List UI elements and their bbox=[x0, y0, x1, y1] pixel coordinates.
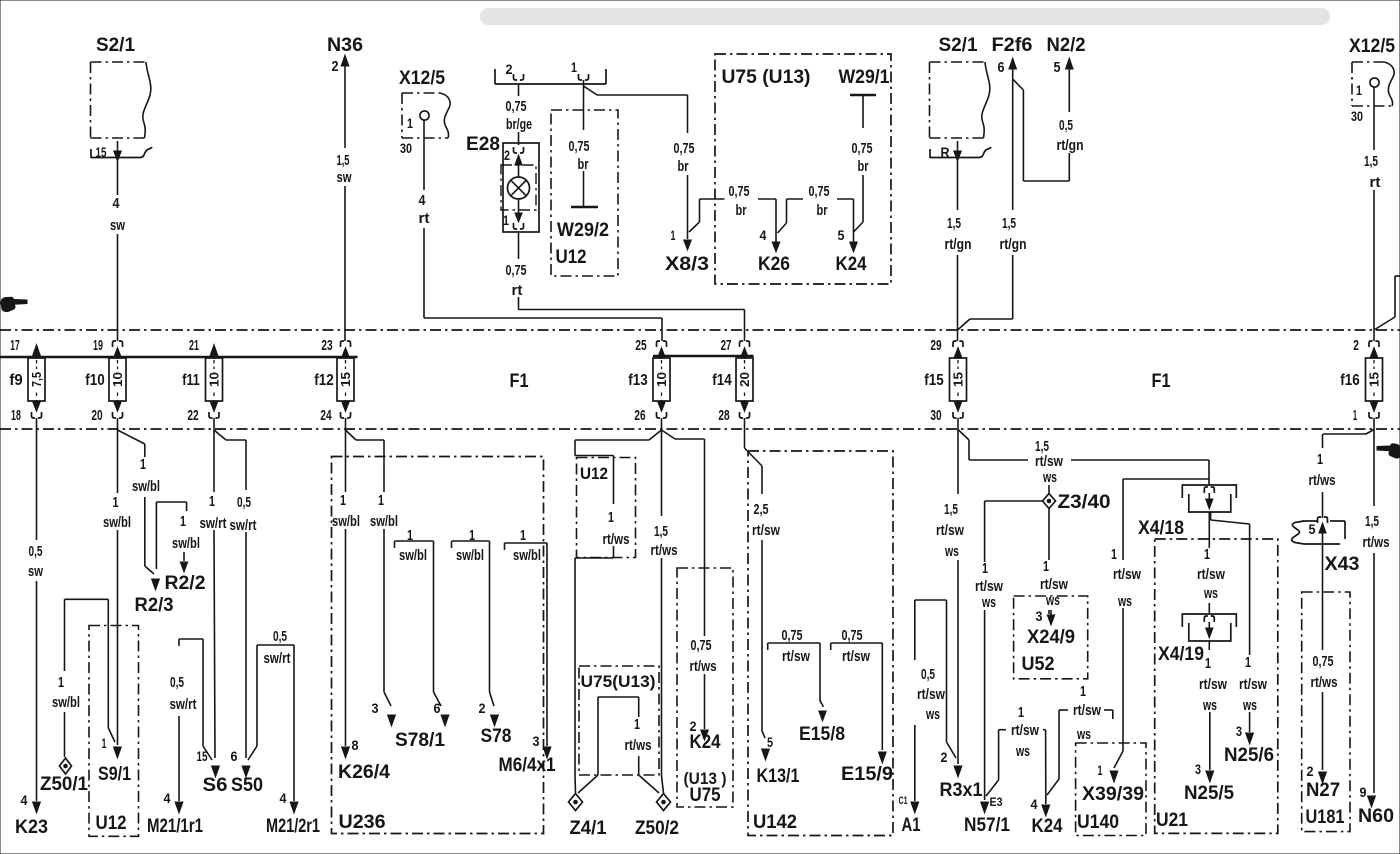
connector X11/29 bracket bbox=[495, 69, 606, 84]
svg-text:1: 1 bbox=[378, 492, 384, 509]
svg-text:rt/ws: rt/ws bbox=[651, 542, 678, 559]
svg-text:E28: E28 bbox=[466, 134, 500, 155]
heater N25/5 label bbox=[1184, 783, 1234, 804]
svg-text:K23: K23 bbox=[15, 817, 48, 838]
label F1 right bbox=[1152, 371, 1171, 392]
svg-text:Z50/1: Z50/1 bbox=[40, 774, 88, 795]
svg-text:1: 1 bbox=[140, 456, 146, 473]
wire label 1 bbox=[608, 509, 614, 526]
svg-text:f10: f10 bbox=[85, 372, 104, 389]
svg-text:30: 30 bbox=[400, 140, 412, 156]
svg-text:5: 5 bbox=[1054, 59, 1061, 76]
wire label 1 bbox=[407, 527, 413, 544]
svg-text:0,75: 0,75 bbox=[569, 138, 590, 155]
switch S9/1 label bbox=[98, 764, 131, 785]
svg-text:U75: U75 bbox=[690, 785, 721, 806]
fuse f13 (10A) bbox=[653, 358, 670, 401]
pin 4 bbox=[164, 790, 171, 806]
svg-text:X4/18: X4/18 bbox=[1138, 518, 1184, 539]
wire label rt/ws bbox=[603, 531, 630, 548]
label f16 bbox=[1340, 372, 1359, 389]
label Z4/1 bbox=[570, 818, 607, 839]
pin 29 bbox=[930, 337, 941, 354]
relay R2/3 label bbox=[135, 595, 174, 616]
E28 bottom clamp bbox=[514, 223, 524, 229]
fuse f10 (10A) bbox=[109, 358, 126, 401]
svg-text:U12: U12 bbox=[556, 247, 587, 268]
svg-text:rt/sw: rt/sw bbox=[1073, 702, 1101, 719]
svg-text:U52: U52 bbox=[1022, 654, 1055, 675]
ground symbol W29/2 bbox=[571, 206, 598, 209]
svg-text:rt/gn: rt/gn bbox=[1057, 137, 1084, 154]
svg-text:S6: S6 bbox=[203, 775, 228, 796]
svg-text:f12: f12 bbox=[314, 372, 333, 389]
A1 tap bracket bbox=[915, 600, 956, 758]
internal rail br bbox=[700, 198, 854, 200]
wire f14:28 to K13/1 bbox=[745, 430, 770, 760]
wire label 0,75 bbox=[674, 140, 695, 157]
wire f11:22 to S6 bbox=[212, 430, 220, 777]
wire f12:24 to K26/4 bbox=[342, 430, 350, 758]
wire label 0,75 bbox=[506, 98, 527, 115]
wire from right edge bbox=[1374, 276, 1400, 330]
svg-text:Z50/2: Z50/2 bbox=[635, 818, 679, 839]
wire label ws bbox=[981, 594, 996, 611]
svg-text:29: 29 bbox=[930, 337, 941, 354]
svg-text:22: 22 bbox=[187, 407, 198, 424]
wire label rt/sw bbox=[1239, 676, 1267, 693]
label W29/2 bbox=[557, 220, 609, 241]
wire label ws bbox=[1015, 743, 1030, 760]
f11 value label bbox=[0, 0, 1, 1]
wire label rt/ws bbox=[1363, 534, 1390, 551]
wire label rt/sw bbox=[782, 648, 810, 665]
f12 value label bbox=[0, 0, 1, 1]
pin 3 bbox=[372, 700, 379, 716]
pin 30 bbox=[930, 407, 941, 424]
svg-text:rt/sw: rt/sw bbox=[936, 522, 964, 539]
wire label sw/bl bbox=[513, 547, 541, 564]
plug connection X4/19 bbox=[1182, 614, 1236, 641]
wire to M21/2r1 bbox=[290, 645, 298, 813]
wire label rt/sw bbox=[1113, 566, 1141, 583]
pin 1 bbox=[1356, 82, 1362, 98]
f15 value label bbox=[0, 0, 1, 1]
pin 3 bbox=[1236, 723, 1242, 739]
svg-text:1: 1 bbox=[671, 227, 676, 243]
wire label ws bbox=[1242, 697, 1257, 714]
wire label ws bbox=[1117, 593, 1132, 610]
pin 2 bbox=[506, 61, 513, 77]
svg-text:X43: X43 bbox=[1325, 554, 1360, 575]
connector X12/5 label bbox=[399, 68, 445, 89]
svg-text:23: 23 bbox=[321, 337, 332, 354]
svg-text:1,5: 1,5 bbox=[947, 215, 961, 232]
wire label 1 bbox=[1204, 546, 1210, 563]
svg-text:F1: F1 bbox=[1152, 371, 1171, 392]
junction f10 branch bbox=[118, 430, 145, 444]
svg-text:1,5: 1,5 bbox=[337, 152, 350, 169]
label f9 bbox=[9, 372, 22, 389]
fuse box F1 upper boundary (dash-dot) bbox=[0, 329, 1400, 331]
svg-text:24: 24 bbox=[320, 407, 332, 424]
S2/1 right terminal bracket bbox=[930, 147, 991, 158]
svg-text:1,5: 1,5 bbox=[1364, 153, 1378, 170]
wire label sw/bl bbox=[399, 547, 427, 564]
M21/1r1 tap bracket bbox=[179, 639, 212, 760]
svg-text:1: 1 bbox=[1317, 451, 1323, 468]
svg-text:1: 1 bbox=[113, 494, 119, 511]
f11 top terminal 21 bbox=[210, 345, 218, 360]
wire X11/29:2 to E28 bbox=[518, 84, 520, 145]
wire X4/19 to N25/5 bbox=[1206, 641, 1214, 782]
svg-text:1: 1 bbox=[1205, 655, 1211, 672]
internal wire U75 right leg bbox=[639, 756, 659, 793]
wire label 0,5 bbox=[921, 666, 935, 683]
f16 bottom terminal 1 bbox=[1369, 400, 1379, 430]
S78/1 tap bracket bbox=[395, 541, 449, 726]
label f14 bbox=[712, 372, 731, 389]
pin 22 bbox=[187, 407, 198, 424]
svg-text:sw: sw bbox=[337, 169, 352, 186]
wire X12/5 to f13:25 bbox=[424, 120, 662, 341]
bus bar segment f13-f14 bbox=[653, 355, 754, 358]
pin 1 bbox=[1098, 762, 1103, 778]
bus bar segment f9-f12 bbox=[0, 356, 358, 359]
svg-text:U181: U181 bbox=[1306, 807, 1345, 828]
X12/5 right contact circle bbox=[1370, 78, 1379, 87]
E28 bulb bbox=[508, 177, 530, 199]
svg-text:19: 19 bbox=[93, 337, 103, 354]
pin 5 bbox=[1054, 59, 1061, 76]
svg-text:0,75: 0,75 bbox=[852, 140, 873, 157]
svg-text:1: 1 bbox=[1245, 654, 1251, 671]
wire X12/5 right to f16:2 bbox=[1373, 87, 1375, 341]
relay K24 label bbox=[836, 254, 867, 275]
svg-text:rt: rt bbox=[1370, 174, 1381, 191]
wire label 1 bbox=[1205, 655, 1211, 672]
svg-text:0,5: 0,5 bbox=[237, 494, 251, 511]
svg-text:0,75: 0,75 bbox=[1313, 653, 1334, 670]
f14 value label bbox=[0, 0, 1, 1]
module U12 boundary bbox=[577, 458, 636, 558]
svg-text:ws: ws bbox=[1045, 592, 1060, 609]
svg-text:1: 1 bbox=[209, 493, 215, 510]
label U12 bbox=[556, 247, 587, 268]
wire label rt/ws bbox=[651, 542, 678, 559]
svg-text:6: 6 bbox=[998, 59, 1005, 76]
svg-text:1: 1 bbox=[407, 527, 413, 544]
wire f15:30 to R3x1 bbox=[954, 430, 962, 777]
svg-text:K13/1: K13/1 bbox=[757, 766, 800, 787]
junction f16 branch bbox=[1323, 430, 1375, 449]
fuse box F1 lower boundary (dash-dot) bbox=[0, 428, 1400, 430]
wire to X8/3 (horizontal) bbox=[584, 86, 688, 95]
svg-text:br: br bbox=[817, 202, 828, 219]
pointing hand marker left bbox=[1, 297, 27, 311]
wire label 1,5 bbox=[1035, 438, 1049, 455]
E15/8 tap bracket bbox=[768, 643, 827, 721]
svg-text:N57/1: N57/1 bbox=[964, 815, 1010, 836]
svg-text:20: 20 bbox=[91, 407, 102, 424]
svg-text:ws: ws bbox=[1042, 469, 1057, 486]
svg-text:9: 9 bbox=[1360, 784, 1367, 800]
wire label 0,75 bbox=[729, 183, 750, 200]
wire label rt/sw bbox=[752, 522, 780, 539]
f10 value label bbox=[0, 0, 1, 1]
svg-text:sw/bl: sw/bl bbox=[332, 513, 360, 530]
svg-text:1,5: 1,5 bbox=[1365, 513, 1379, 530]
wire through U12 bbox=[575, 440, 614, 793]
f13 top terminal 25 bbox=[657, 341, 667, 359]
svg-text:1: 1 bbox=[1043, 558, 1049, 575]
svg-text:4: 4 bbox=[113, 195, 121, 212]
wire 1,5 rt/sw ws rail bbox=[969, 459, 1209, 461]
pin 17 bbox=[10, 337, 19, 354]
wire label br bbox=[678, 158, 689, 175]
control unit N57/1 label bbox=[964, 815, 1010, 836]
svg-text:rt/sw: rt/sw bbox=[842, 648, 870, 665]
wire f13 to K24 column bbox=[662, 430, 709, 740]
svg-text:X4/19: X4/19 bbox=[1158, 644, 1204, 665]
pin 5 bbox=[767, 734, 773, 750]
wire label sw/rt bbox=[230, 517, 257, 534]
svg-text:K26/4: K26/4 bbox=[338, 762, 390, 783]
wire to K24 bbox=[850, 199, 858, 252]
svg-text:A1: A1 bbox=[902, 815, 921, 836]
svg-text:0,75: 0,75 bbox=[782, 627, 803, 644]
wire Z3/40 to N57/1 bbox=[981, 501, 1043, 813]
pin 9 bbox=[1360, 784, 1367, 800]
svg-text:rt/ws: rt/ws bbox=[1309, 472, 1336, 489]
svg-text:U75(U13): U75(U13) bbox=[581, 672, 656, 691]
module U142 boundary bbox=[748, 451, 893, 836]
wire label 0,75 bbox=[782, 627, 803, 644]
M21/2r1 tap bracket bbox=[248, 645, 294, 760]
wire label 2,5 bbox=[754, 501, 769, 518]
pin 1 bbox=[102, 735, 107, 751]
svg-text:sw/bl: sw/bl bbox=[370, 513, 398, 530]
terminal 30 bbox=[400, 140, 412, 156]
wire to R2/3 bbox=[145, 444, 160, 590]
wire label 0,75 bbox=[809, 183, 830, 200]
svg-text:4: 4 bbox=[419, 192, 427, 209]
svg-text:6: 6 bbox=[231, 748, 238, 764]
f15 top terminal 29 bbox=[953, 341, 963, 359]
svg-text:rt/gn: rt/gn bbox=[945, 236, 972, 253]
svg-text:10: 10 bbox=[111, 372, 125, 387]
wire f13:26 to Z50/2 bbox=[662, 430, 664, 793]
svg-text:f11: f11 bbox=[182, 372, 199, 389]
wire to X43 bbox=[1322, 492, 1324, 518]
svg-text:2: 2 bbox=[479, 700, 486, 716]
wire to S50 bbox=[242, 440, 250, 777]
svg-text:3: 3 bbox=[1036, 608, 1043, 624]
pin C1 bbox=[899, 795, 908, 807]
wire label 1 bbox=[1245, 654, 1251, 671]
svg-text:Z3/40: Z3/40 bbox=[1058, 492, 1111, 513]
wire label rt/sw bbox=[917, 686, 945, 703]
wire to X8/3 bbox=[684, 95, 692, 250]
label (U13) bbox=[684, 769, 727, 788]
wire label 1 bbox=[469, 527, 475, 544]
svg-text:1: 1 bbox=[1356, 82, 1362, 98]
control unit N60 label bbox=[1358, 806, 1394, 827]
N36 arrow bbox=[341, 55, 349, 148]
label F1 left bbox=[510, 371, 529, 392]
pin E3 bbox=[990, 795, 1003, 809]
pin 28 bbox=[718, 407, 729, 424]
wire label rt/sw bbox=[975, 578, 1003, 595]
svg-text:U21: U21 bbox=[1156, 810, 1188, 831]
svg-text:f14: f14 bbox=[712, 372, 731, 389]
wire to ground W29/2 bbox=[583, 95, 585, 207]
wire to M21/1r1 bbox=[175, 716, 183, 813]
wire label sw/rt bbox=[200, 515, 227, 532]
svg-text:R2/3: R2/3 bbox=[135, 595, 174, 616]
pin 4 bbox=[760, 227, 767, 243]
svg-text:sw/bl: sw/bl bbox=[103, 514, 131, 531]
pin 15 bbox=[197, 748, 208, 764]
svg-text:rt: rt bbox=[419, 210, 430, 227]
wire label rt/sw bbox=[1199, 676, 1227, 693]
svg-text:br: br bbox=[858, 158, 869, 175]
pin 23 bbox=[321, 337, 332, 354]
wire to Z50/1 bbox=[64, 599, 66, 757]
svg-text:rt/sw: rt/sw bbox=[975, 578, 1003, 595]
svg-text:F1: F1 bbox=[510, 371, 529, 392]
svg-text:N27: N27 bbox=[1306, 780, 1340, 801]
K24 tap bracket A bbox=[986, 730, 1050, 816]
wire label 0,75 bbox=[852, 140, 873, 157]
control unit N27 label bbox=[1306, 780, 1340, 801]
module U12 boundary bbox=[89, 626, 139, 837]
relay K24 label bbox=[1032, 816, 1063, 837]
module U52 boundary bbox=[1014, 596, 1088, 679]
S78 tap bracket bbox=[452, 541, 499, 726]
svg-text:rt/ws: rt/ws bbox=[603, 531, 630, 548]
label U181 bbox=[1306, 807, 1345, 828]
svg-text:rt/sw: rt/sw bbox=[1035, 453, 1063, 470]
internal wire U75 bbox=[578, 697, 639, 793]
wire label rt/ws bbox=[1311, 674, 1338, 691]
svg-text:N25/6: N25/6 bbox=[1224, 745, 1274, 766]
control unit N36 label bbox=[327, 35, 363, 56]
wire label sw/bl bbox=[172, 535, 200, 552]
svg-text:rt: rt bbox=[512, 282, 523, 299]
svg-text:U75 (U13): U75 (U13) bbox=[722, 67, 811, 88]
K24 tap bracket B bbox=[1047, 710, 1113, 795]
motor M6/4x1 label bbox=[499, 755, 556, 776]
fuse f15 (15A) bbox=[950, 358, 967, 401]
f12 top terminal 23 bbox=[341, 341, 351, 359]
relay R2/2 label bbox=[165, 573, 206, 594]
wire label rt/gn bbox=[1000, 236, 1027, 253]
wire label 1 bbox=[209, 493, 215, 510]
pin 6 bbox=[998, 59, 1005, 76]
svg-text:X12/5: X12/5 bbox=[399, 68, 445, 89]
wire label sw/rt bbox=[264, 650, 291, 667]
svg-text:E15/9: E15/9 bbox=[841, 764, 893, 785]
label f10 bbox=[85, 372, 104, 389]
wire to S78/1 bbox=[384, 440, 395, 726]
svg-text:10: 10 bbox=[208, 372, 222, 387]
svg-text:15: 15 bbox=[1368, 372, 1382, 387]
svg-text:1: 1 bbox=[503, 212, 509, 228]
svg-text:0,75: 0,75 bbox=[674, 140, 695, 157]
label f11 bbox=[182, 372, 199, 389]
label U12 bbox=[580, 464, 608, 483]
scan smudge artifact bbox=[480, 8, 1330, 25]
f11 bottom terminal 22 bbox=[209, 400, 219, 430]
wire label 1 bbox=[1080, 683, 1086, 700]
pointing hand marker right bbox=[1377, 444, 1400, 458]
N2/2 arrow bbox=[1066, 58, 1074, 69]
wire to K26 bbox=[772, 199, 780, 252]
svg-text:rt/sw: rt/sw bbox=[782, 648, 810, 665]
pin 4 bbox=[1031, 796, 1038, 812]
svg-text:rt/ws: rt/ws bbox=[1311, 674, 1338, 691]
wire label 1,5 bbox=[1365, 513, 1379, 530]
X11/29 pin2 clamp bbox=[514, 74, 524, 80]
svg-text:1: 1 bbox=[1018, 704, 1024, 721]
lamp E15/8 label bbox=[799, 724, 845, 745]
wire label 4 bbox=[113, 195, 121, 212]
svg-text:f13: f13 bbox=[628, 372, 647, 389]
f10 top terminal 19 bbox=[113, 341, 123, 359]
svg-text:1: 1 bbox=[102, 735, 107, 751]
svg-text:X12/5: X12/5 bbox=[1349, 36, 1395, 57]
control unit A1 label bbox=[902, 815, 921, 836]
wire label rt/sw bbox=[842, 648, 870, 665]
svg-text:sw: sw bbox=[110, 217, 125, 234]
svg-text:1: 1 bbox=[1098, 762, 1103, 778]
svg-text:ws: ws bbox=[1202, 697, 1217, 714]
svg-text:15: 15 bbox=[952, 372, 966, 387]
svg-text:8: 8 bbox=[352, 737, 359, 753]
svg-text:S50: S50 bbox=[231, 775, 263, 796]
wire label rt bbox=[1370, 174, 1381, 191]
svg-text:4: 4 bbox=[1031, 796, 1038, 812]
svg-text:ws: ws bbox=[1242, 697, 1257, 714]
module U236 boundary bbox=[332, 457, 544, 834]
label U52 bbox=[1022, 654, 1055, 675]
label U12 bbox=[96, 813, 127, 834]
jog X4/18 to N25/6 bbox=[1211, 512, 1254, 744]
pin 15 bbox=[96, 144, 107, 160]
svg-text:1: 1 bbox=[571, 59, 577, 75]
pin 1 bbox=[671, 227, 676, 243]
svg-text:br: br bbox=[736, 202, 747, 219]
fuse f14 (20A) bbox=[736, 358, 753, 401]
svg-text:sw/rt: sw/rt bbox=[200, 515, 227, 532]
wire label sw/bl bbox=[332, 513, 360, 530]
connector K23 label bbox=[15, 817, 48, 838]
module boundary K24 (U13) U75 bbox=[677, 568, 733, 807]
wire label rt/sw bbox=[1197, 566, 1225, 583]
f9 value label bbox=[0, 0, 1, 1]
wire label 0,75 bbox=[569, 138, 590, 155]
lamp E15/9 label bbox=[841, 764, 893, 785]
pin 27 bbox=[721, 337, 732, 354]
module U75 (U13) boundary bbox=[579, 666, 659, 775]
svg-text:ws: ws bbox=[1203, 585, 1218, 602]
wire label 1 bbox=[634, 716, 640, 733]
svg-text:1: 1 bbox=[1353, 407, 1357, 424]
svg-text:S78: S78 bbox=[481, 726, 512, 747]
svg-text:2: 2 bbox=[941, 749, 948, 765]
svg-text:2: 2 bbox=[506, 61, 513, 77]
